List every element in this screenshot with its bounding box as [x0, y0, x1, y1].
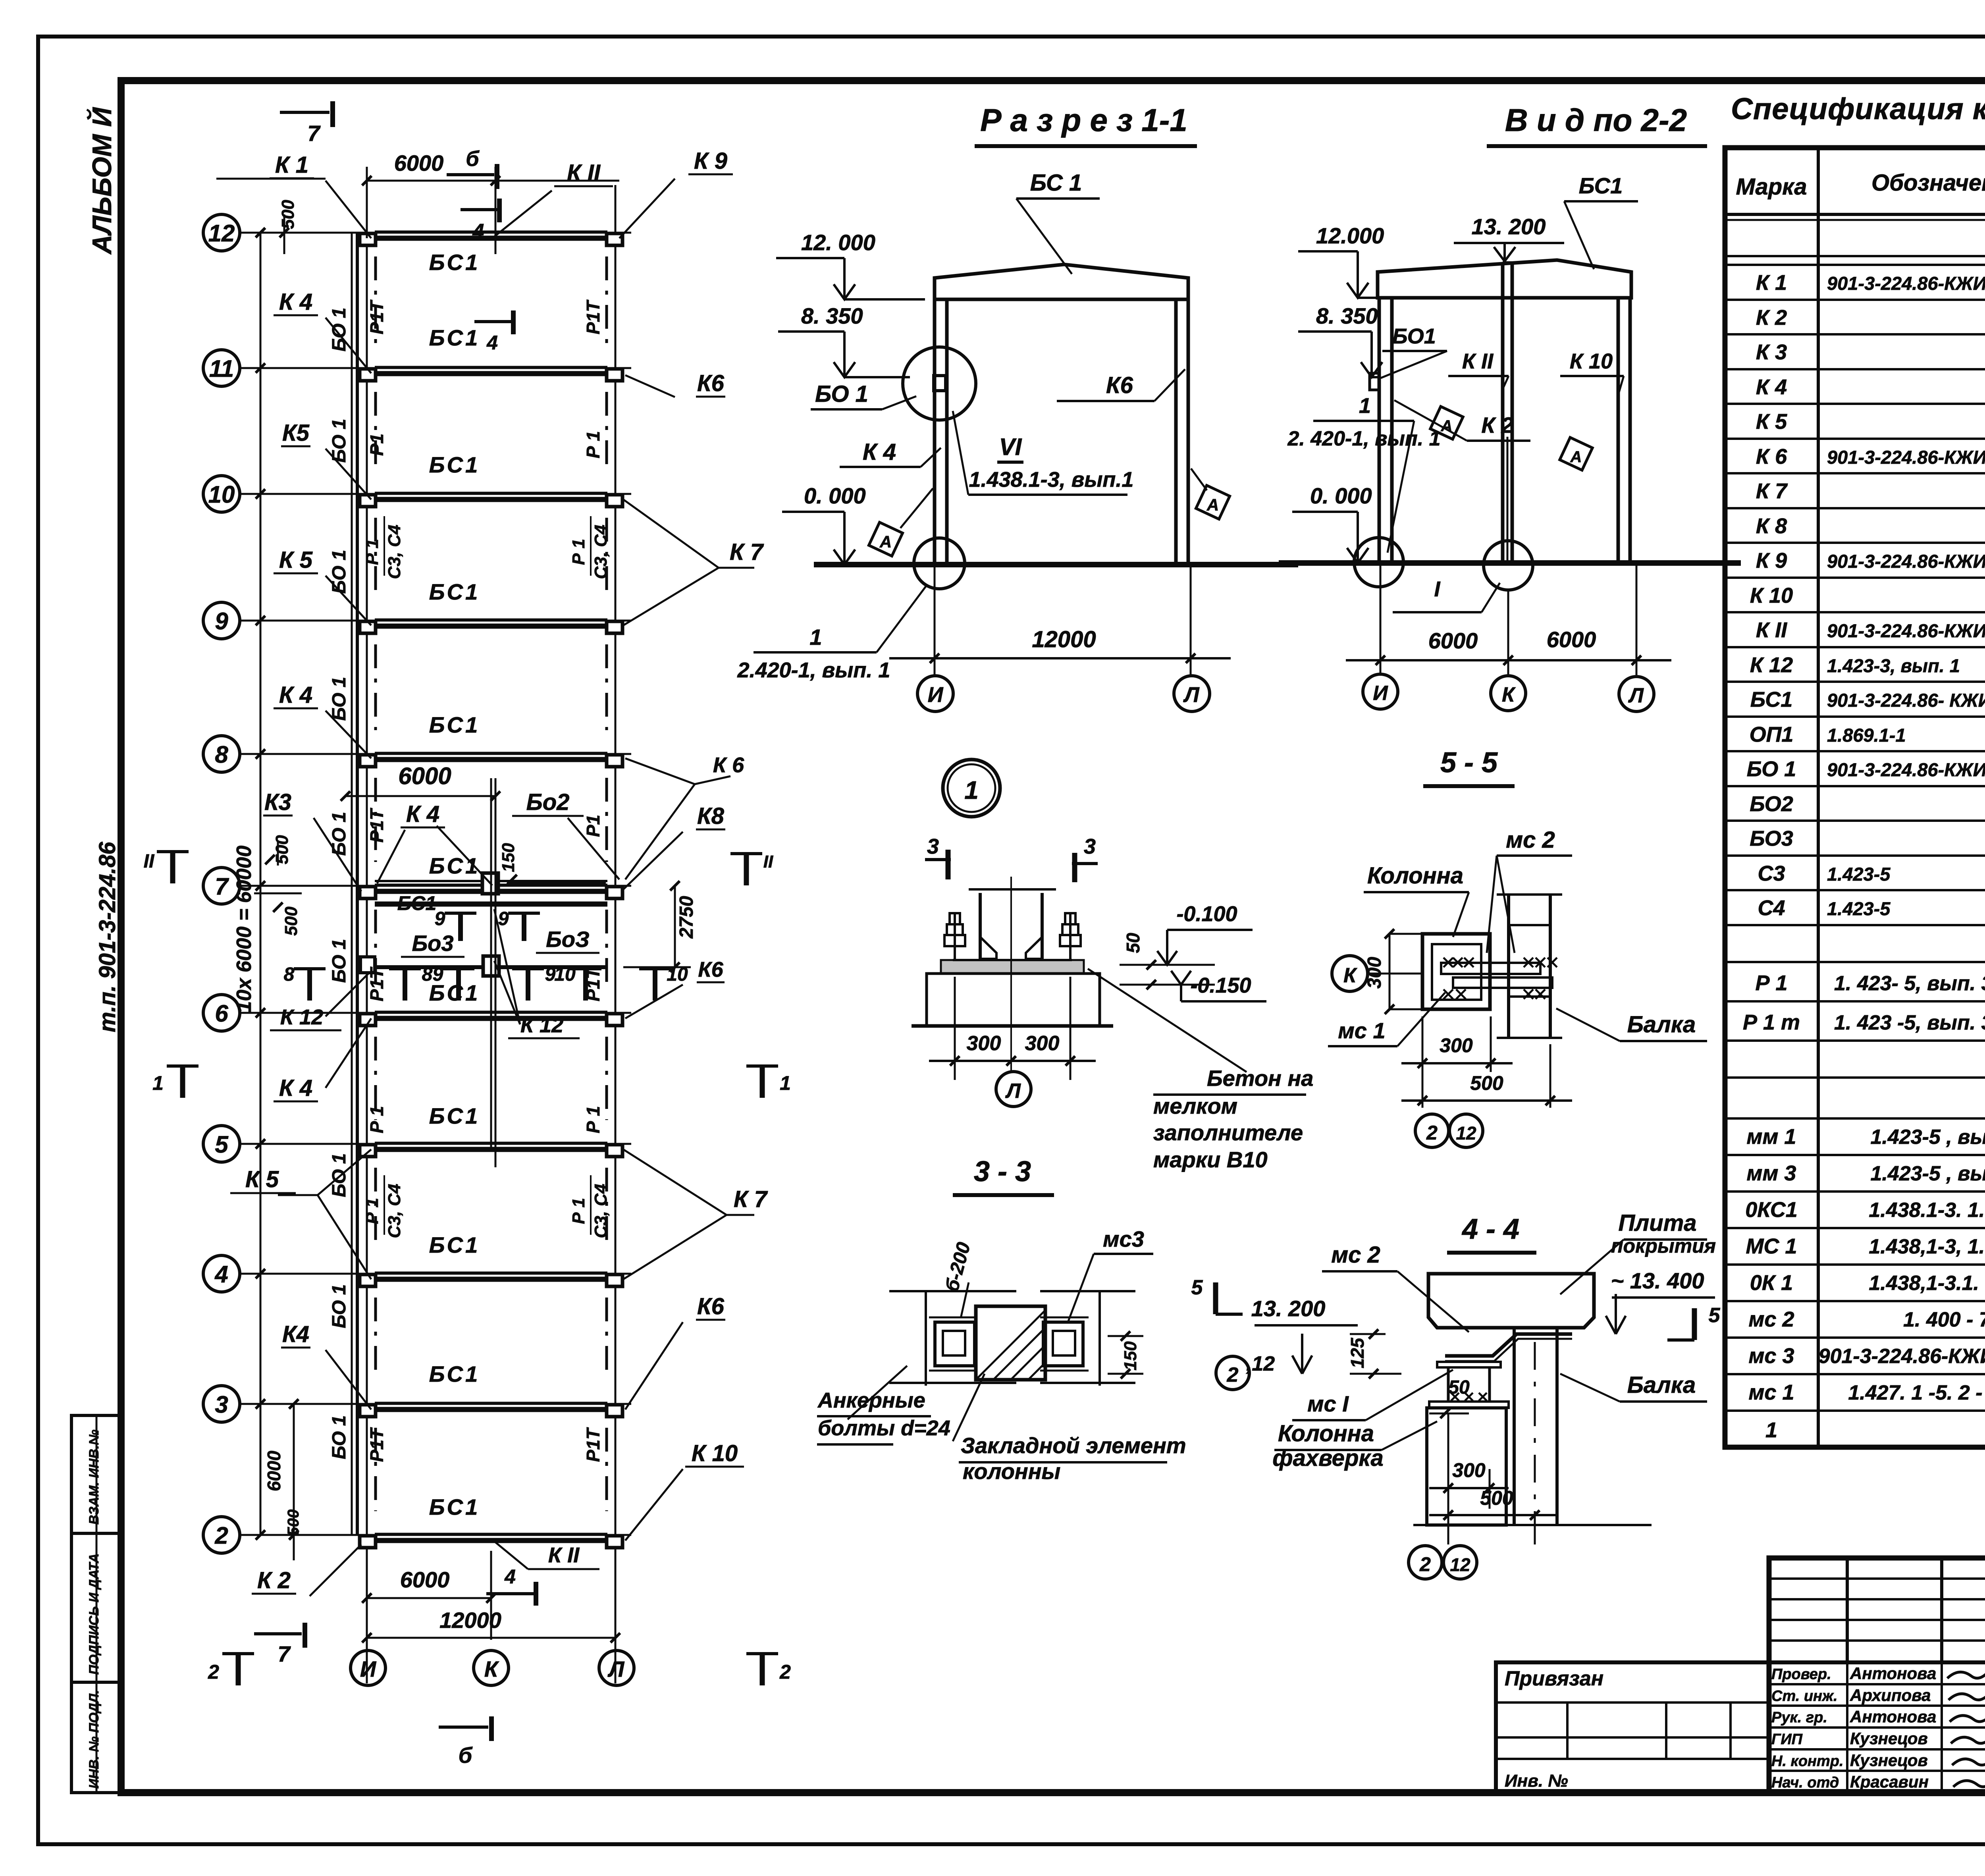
svg-text:901-3-224.86-КЖИ.17.0.0.0: 901-3-224.86-КЖИ.17.0.0.0 [1827, 759, 1985, 780]
section 1-1 roof beam БС1 [935, 264, 1188, 299]
node1 axis Л bubble [996, 1072, 1031, 1107]
svg-text:7: 7 [307, 121, 321, 146]
svg-text:БС1: БС1 [1579, 173, 1623, 198]
beam БС1 axis 2 [375, 1534, 607, 1541]
beam БС1 axis 4 [375, 1273, 607, 1279]
label БС1 axis 3 [429, 1361, 480, 1386]
svg-text:Кузнецов: Кузнецов [1850, 1729, 1928, 1748]
svg-text:АЛЬБОМ Й: АЛЬБОМ Й [86, 107, 117, 255]
plan: beam БС1 below axis 7 [375, 902, 607, 907]
label БС1 axis 7 [429, 853, 480, 878]
svg-text:К 4: К 4 [1756, 375, 1787, 399]
svg-text:150: 150 [1121, 1341, 1140, 1371]
svg-text:БО 1: БО 1 [329, 419, 350, 463]
section mark 2 bottom right [746, 1654, 791, 1685]
small section mark [512, 964, 556, 1001]
d55 title [1423, 747, 1515, 786]
section mark 4 top [461, 199, 499, 243]
detail 3-3 title [953, 1156, 1054, 1195]
section 1-1 title [975, 102, 1197, 146]
d44 roof slab [1428, 1274, 1594, 1328]
svg-text:1.438,1-3, 1. 070: 1.438,1-3, 1. 070 [1869, 1235, 1985, 1258]
axis bubble 10 [203, 476, 240, 512]
svg-text:К8: К8 [697, 803, 725, 829]
svg-text:1.423-3, вып. 1: 1.423-3, вып. 1 [1827, 655, 1960, 676]
spec data rows columns [1725, 271, 1985, 925]
section mark II right [730, 852, 773, 885]
section 1-1 label К6 [1057, 369, 1185, 401]
label Р1 rotated [583, 966, 603, 1001]
svg-text:К 4: К 4 [279, 289, 312, 315]
axis bubble 7 [203, 868, 240, 904]
svg-text:500: 500 [278, 200, 298, 229]
svg-text:300: 300 [1025, 1032, 1060, 1055]
column square left axis 8 [360, 755, 376, 767]
d44 ground break line [1413, 1524, 1652, 1526]
svg-text:Р 1: Р 1 [362, 1198, 382, 1224]
node1 dim 300 300 [929, 977, 1096, 1080]
d44 label Балка [1560, 1372, 1707, 1402]
label Р1 rotated [583, 431, 603, 458]
view 2-2 label К2 [1394, 400, 1530, 441]
svg-text:1.438.1-3. 1. 040: 1.438.1-3. 1. 040 [1869, 1199, 1985, 1222]
svg-text:Спецификация к схеме располож: Спецификация к схеме расположения колонн… [1731, 92, 1985, 126]
svg-text:5: 5 [1191, 1276, 1203, 1299]
column square right axis 6 [607, 1014, 622, 1026]
label БО1 rotated [329, 1284, 350, 1328]
small section mark [433, 964, 474, 1001]
svg-text:С3: С3 [1758, 862, 1785, 885]
svg-text:1.438.1-3, вып.1: 1.438.1-3, вып.1 [969, 468, 1134, 492]
svg-text:901-3-224.86-КЖИ.05.00.0: 901-3-224.86-КЖИ.05.00.0 [1827, 273, 1985, 294]
d55 label мс2 [1487, 827, 1572, 953]
section 1-1 axis И [917, 676, 953, 711]
column square left axis 12 [360, 233, 376, 245]
d44 fachwerk column top [1429, 1362, 1509, 1408]
beam БС1 axis 3 [375, 1403, 607, 1409]
svg-text:мс I: мс I [1307, 1391, 1349, 1416]
d33 right embed plate [1040, 1317, 1089, 1371]
svg-text:мс 1: мс 1 [1338, 1018, 1385, 1043]
spec table grid [1725, 148, 1985, 1447]
d55 bubbles 2 12 [1415, 1114, 1483, 1147]
beam БС1 axis 12 [375, 231, 607, 238]
svg-text:Р 1: Р 1 [366, 1106, 387, 1133]
svg-text:БО3: БО3 [1750, 827, 1793, 850]
svg-text:1.438,1-3.1. 0.10: 1.438,1-3.1. 0.10 [1869, 1272, 1985, 1295]
column square right axis 2 [607, 1536, 622, 1548]
labels Бо3 [401, 931, 464, 957]
svg-text:БС 1: БС 1 [1030, 170, 1082, 196]
svg-text:11: 11 [209, 355, 234, 382]
svg-text:4: 4 [486, 332, 498, 354]
svg-text:ПОДПИСЬ И ДАТА: ПОДПИСЬ И ДАТА [87, 1553, 102, 1675]
plan bottom 6000/500 left [264, 1399, 302, 1560]
column square left axis 11 [360, 369, 376, 381]
view 2-2 elevation 12.000 [1298, 223, 1384, 298]
svg-text:901-3-224.86-КЖИ.06.0.0.0: 901-3-224.86-КЖИ.06.0.0.0 [1827, 447, 1985, 468]
svg-text:Л: Л [1628, 684, 1644, 707]
d55 label Балка [1556, 1008, 1707, 1041]
svg-text:Антонова: Антонова [1850, 1664, 1936, 1683]
svg-text:БоЗ: БоЗ [546, 927, 590, 952]
svg-text:ГИП: ГИП [1771, 1731, 1803, 1748]
axis bubble 6 [203, 995, 240, 1031]
svg-text:10х 6000 = 60000: 10х 6000 = 60000 [233, 846, 256, 1013]
svg-text:А: А [1206, 496, 1219, 514]
svg-text:1: 1 [1765, 1418, 1777, 1442]
section 1-1 node circle at base [914, 538, 965, 589]
d44 label Колонна фахверка [1272, 1421, 1437, 1471]
view 2-2 ground line [1279, 560, 1741, 566]
label К4 (axis 3) [281, 1321, 371, 1409]
svg-text:К 2: К 2 [1481, 413, 1513, 438]
section 1-1 elevation 12.000 [776, 230, 925, 299]
beam БС1 axis 11 [375, 367, 607, 374]
label К7 (right, axes 10-9) [623, 499, 764, 625]
svg-text:К 9: К 9 [1756, 549, 1787, 573]
d33 left embed plate [929, 1317, 977, 1371]
d55 dim 300 vertical [1364, 929, 1425, 1014]
plan: vertical dimension chain 10x6000 [233, 228, 265, 1540]
svg-text:500: 500 [285, 1510, 302, 1536]
column square left axis 6 [360, 1014, 376, 1026]
column square right axis 8 [607, 755, 622, 767]
svg-text:50: 50 [1448, 1377, 1470, 1398]
section 1-1 flag А left [869, 488, 933, 556]
label К7 (axis 5/4 right) [623, 1149, 768, 1279]
svg-text:К 10: К 10 [1570, 349, 1613, 373]
plan dim 150 rotated [499, 843, 518, 884]
svg-text:Рук. гр.: Рук. гр. [1771, 1709, 1827, 1726]
column square left axis 2 [360, 1536, 376, 1548]
svg-text:ИНВ. № ПОДЛ.: ИНВ. № ПОДЛ. [87, 1690, 102, 1789]
view 2-2 elevation 13.200 [1454, 214, 1564, 261]
svg-text:1: 1 [809, 625, 822, 650]
svg-text:1.423-5 , вып. 3: 1.423-5 , вып. 3 [1870, 1162, 1985, 1185]
svg-text:1. 423 -5, вып. 3: 1. 423 -5, вып. 3 [1834, 1011, 1985, 1034]
svg-text:Бо2: Бо2 [526, 789, 570, 815]
plan: column line Л (right) [615, 185, 617, 1551]
svg-text:Провер.: Провер. [1771, 1666, 1831, 1683]
svg-text:10: 10 [667, 964, 688, 985]
svg-text:Плита: Плита [1618, 1210, 1696, 1236]
label Р1 rotated [583, 815, 603, 837]
svg-text:Р 1: Р 1 [362, 539, 382, 565]
svg-text:12: 12 [208, 220, 235, 247]
axis bubble 5 [203, 1126, 240, 1162]
svg-text:Р1: Р1 [583, 815, 603, 837]
label БО1 rotated [329, 308, 350, 352]
svg-text:И: И [928, 683, 944, 707]
svg-text:К 7: К 7 [1756, 479, 1788, 503]
svg-text:мс 2: мс 2 [1506, 827, 1555, 853]
column square left axis 5 [360, 1145, 376, 1157]
svg-text:1: 1 [780, 1072, 791, 1094]
view 2-2 axis bubbles [1363, 674, 1398, 709]
svg-text:I: I [1434, 577, 1440, 601]
svg-text:БО 1: БО 1 [329, 939, 350, 983]
svg-text:2: 2 [214, 1522, 228, 1549]
section 1-1 label К4 [840, 439, 941, 467]
svg-text:125: 125 [1347, 1337, 1368, 1368]
svg-text:Р 1: Р 1 [583, 1106, 603, 1133]
svg-text:12: 12 [1456, 1123, 1476, 1143]
d55 label Колонна [1364, 863, 1469, 937]
svg-text:К II: К II [1462, 349, 1494, 373]
margin stamp boxes [71, 1415, 121, 1793]
svg-text:7: 7 [215, 873, 229, 900]
svg-text:10: 10 [208, 481, 235, 508]
plan: edge beam БО1 double line (left) [352, 233, 357, 1535]
section 1-1 leader to beam [1016, 170, 1100, 274]
svg-text:6000: 6000 [394, 150, 444, 175]
small section mark [389, 964, 433, 1001]
label К4 (axis 7) [377, 801, 445, 883]
beam БС1 axis 5 [375, 1143, 607, 1149]
svg-text:К 10: К 10 [1750, 584, 1793, 607]
svg-text:6: 6 [215, 1000, 228, 1027]
svg-text:4: 4 [472, 220, 484, 243]
label К10 (axis 2 right) [625, 1440, 744, 1541]
view 2-2 fachwerk column К11 [1503, 262, 1512, 563]
svg-text:К: К [1343, 964, 1357, 987]
beam БС1 axis 6 [375, 1012, 607, 1018]
svg-text:II: II [763, 852, 773, 871]
svg-text:К 5: К 5 [1756, 410, 1787, 434]
label К9 top [619, 148, 733, 238]
spec section Колонны [1725, 226, 1985, 265]
svg-text:В u д по 2-2: В u д по 2-2 [1505, 102, 1687, 138]
svg-text:БО 1: БО 1 [329, 812, 350, 856]
section 1-1 axis Л [1174, 676, 1210, 711]
svg-text:300: 300 [1452, 1459, 1486, 1481]
svg-text:901-3-224.86-КЖИ.08.0.0.0: 901-3-224.86-КЖИ.08.0.0.0 [1827, 620, 1985, 641]
svg-text:БС1: БС1 [429, 250, 480, 275]
axis 8 line [240, 753, 631, 755]
d44 label Плита покрытия [1560, 1210, 1716, 1294]
d33 concrete column hatched [976, 1306, 1046, 1380]
section 1-1 ground line [814, 562, 1298, 567]
label Р1 rotated [583, 1427, 603, 1462]
svg-text:К 2: К 2 [257, 1568, 291, 1593]
svg-text:ВЗАМ. ИНВ.№: ВЗАМ. ИНВ.№ [87, 1430, 102, 1525]
svg-text:9: 9 [433, 964, 443, 985]
label К6 (axis 6 right) [625, 958, 725, 1018]
svg-text:3 - 3: 3 - 3 [974, 1156, 1031, 1188]
view 2-2 label 1 bottom [1393, 577, 1500, 612]
svg-text:VI: VI [999, 434, 1022, 460]
axis bubble 2 [203, 1517, 240, 1553]
svg-text:9: 9 [215, 608, 228, 634]
svg-text:Р 1: Р 1 [569, 539, 588, 565]
svg-text:Кузнецов: Кузнецов [1850, 1751, 1928, 1770]
section 1-1 flag А right [1191, 469, 1230, 519]
svg-text:II: II [144, 851, 155, 872]
svg-text:К 8: К 8 [1756, 514, 1787, 538]
svg-text:1: 1 [152, 1072, 164, 1094]
d44 elevation 13.200 [1251, 1296, 1358, 1374]
svg-text:0. 000: 0. 000 [804, 483, 866, 508]
section mark 1 left [152, 1066, 198, 1098]
node1 elevation -0.150 [1171, 971, 1266, 1001]
svg-text:БО 1: БО 1 [329, 1153, 350, 1197]
section mark 1 right [746, 1066, 791, 1098]
d44 label мс2 [1322, 1242, 1469, 1332]
label К12 left [270, 973, 369, 1030]
svg-text:8. 350: 8. 350 [1316, 303, 1378, 328]
d44 dim 125 [1347, 1329, 1401, 1379]
column square right axis 3 [607, 1405, 622, 1417]
small section mark [284, 964, 326, 1001]
svg-text:С3, С4: С3, С4 [385, 525, 404, 579]
svg-text:8. 350: 8. 350 [801, 303, 863, 328]
plan: beam Бо2 at axis 7 [375, 873, 607, 894]
label БО1 rotated [329, 939, 350, 983]
label К3 (axis 7) [263, 789, 361, 891]
section 1-1 node circle БО1 [903, 347, 976, 420]
svg-text:БО 1: БО 1 [815, 381, 868, 407]
svg-text:3: 3 [1084, 835, 1096, 858]
svg-text:Красавин: Красавин [1850, 1772, 1929, 1791]
spec rows Р1 [1725, 971, 1985, 1041]
d44 column pedestal [1427, 1408, 1506, 1525]
svg-text:12. 000: 12. 000 [801, 230, 875, 255]
svg-text:6000: 6000 [398, 763, 451, 789]
svg-text:мс 2: мс 2 [1748, 1307, 1794, 1331]
section 1-1 label VI 1.438.1-3 [953, 411, 1133, 495]
node1 base plate and bolts [941, 913, 1084, 974]
d33 boundary break lines [889, 1291, 1135, 1386]
label К1 [270, 152, 371, 238]
svg-text:4: 4 [504, 1566, 516, 1588]
label Р1 rotated [366, 434, 387, 456]
svg-text:2750: 2750 [676, 896, 697, 939]
svg-text:2. 420-1, вып. 1: 2. 420-1, вып. 1 [1287, 427, 1440, 450]
label Р1/С3,С4 [569, 1175, 611, 1238]
section mark 7 bottom [254, 1623, 305, 1666]
axis bubble 12 [203, 214, 240, 251]
svg-text:2: 2 [1426, 1122, 1438, 1144]
plan top 500 dim [256, 200, 298, 254]
label БС1 below 7 [397, 892, 437, 914]
beam БС1 axis 9 [375, 619, 607, 626]
view 2-2 elevation 8.350 [1298, 303, 1382, 377]
label К6 (axis 8 right) [625, 753, 744, 879]
svg-text:К6: К6 [697, 370, 725, 396]
svg-text:К 12: К 12 [280, 1005, 323, 1029]
view 2-2 base node circles [1354, 538, 1533, 590]
svg-text:С4: С4 [1758, 896, 1785, 920]
column square right axis 4 [607, 1274, 622, 1286]
plan: beam Бо3 between axes 7 and 6 [360, 956, 607, 976]
svg-text:покрытия: покрытия [1611, 1235, 1716, 1257]
svg-text:К: К [1502, 683, 1516, 706]
view 2-2 right column К10 [1618, 298, 1630, 563]
d44 bubbles 2 12 [1409, 1546, 1477, 1579]
plan: center line К segment [490, 778, 492, 1151]
axis 10 line [240, 493, 631, 495]
svg-text:К 12: К 12 [1750, 653, 1793, 677]
d44 dim 50 [1429, 1377, 1470, 1418]
view 2-2 label 1 / 2.420-1 [1287, 394, 1440, 553]
axis bubble 3 [203, 1386, 240, 1422]
label Р1 rotated [366, 966, 387, 1001]
svg-text:Балка: Балка [1627, 1372, 1696, 1398]
label К11 bottom [492, 1540, 599, 1569]
d55 column square [1422, 934, 1490, 1009]
spec table title [1731, 92, 1985, 126]
svg-text:С3, С4: С3, С4 [591, 525, 611, 579]
svg-text:К3: К3 [264, 789, 291, 815]
svg-text:К6: К6 [1106, 372, 1133, 398]
node1 pedestal [912, 974, 1113, 1026]
svg-text:8: 8 [422, 964, 433, 985]
svg-text:мс 3: мс 3 [1748, 1344, 1794, 1368]
section 1-1 elevation 0.000 [782, 483, 866, 565]
svg-text:3: 3 [215, 1391, 228, 1418]
svg-text:К 12: К 12 [520, 1013, 563, 1037]
axis 5 line [240, 1143, 631, 1145]
axis bubble 11 [203, 350, 240, 386]
svg-text:Р 1 т: Р 1 т [1743, 1010, 1800, 1034]
plan bottom axis bubbles И К Л [351, 1650, 385, 1685]
d55 label мс1 [1328, 993, 1445, 1046]
svg-text:500: 500 [1470, 1072, 1503, 1094]
svg-text:К5: К5 [282, 420, 310, 446]
label Р1/С3,С4 [362, 1175, 404, 1238]
svg-text:Марка: Марка [1736, 174, 1807, 200]
svg-text:2: 2 [1419, 1553, 1431, 1575]
column square right axis 9 [607, 621, 622, 633]
svg-text:Р а з р е з 1-1: Р а з р е з 1-1 [980, 102, 1187, 138]
label БС1 axis 12 [429, 250, 480, 275]
svg-text:1: 1 [1359, 394, 1371, 418]
svg-text:б: б [459, 1743, 473, 1768]
view 2-2 left column [1379, 298, 1392, 563]
label БС1 axis 9 [429, 579, 480, 604]
d55 connector plates with welds [1441, 958, 1557, 999]
svg-text:К 7: К 7 [730, 539, 764, 565]
d44 elevation 13.400 [1606, 1268, 1715, 1334]
svg-text:БС1: БС1 [429, 1103, 480, 1128]
svg-text:,12: ,12 [1246, 1352, 1275, 1375]
svg-text:Р 1: Р 1 [569, 1198, 588, 1224]
svg-text:БС1: БС1 [429, 579, 480, 604]
svg-text:8: 8 [215, 741, 228, 768]
section mark 4 bottom [486, 1566, 536, 1606]
svg-text:0К 1: 0К 1 [1750, 1271, 1793, 1295]
label БС1 axis 8 [429, 712, 480, 737]
label БО1 rotated [329, 677, 350, 721]
svg-text:БО2: БО2 [1750, 792, 1793, 816]
svg-text:901-3-224.86-КЖИ.62.0.2.0: 901-3-224.86-КЖИ.62.0.2.0 [1819, 1345, 1985, 1368]
svg-text:1. 400 - 7: 1. 400 - 7 [1903, 1308, 1985, 1331]
column square right axis 7 [607, 887, 622, 898]
svg-text:-0.150: -0.150 [1190, 974, 1251, 997]
axis 9 line [240, 620, 631, 622]
spec last row Полоса [1765, 1408, 1985, 1448]
svg-text:50: 50 [1123, 933, 1143, 953]
label К5 (axis 10) [281, 420, 371, 499]
column square right axis 12 [607, 233, 622, 245]
node1 concrete note [1088, 969, 1313, 1172]
svg-text:С3, С4: С3, С4 [591, 1184, 611, 1238]
svg-text:12000: 12000 [1032, 627, 1096, 652]
node1 column shaft [969, 889, 1056, 959]
svg-text:300: 300 [1440, 1034, 1473, 1057]
label Бо2 [437, 789, 619, 885]
